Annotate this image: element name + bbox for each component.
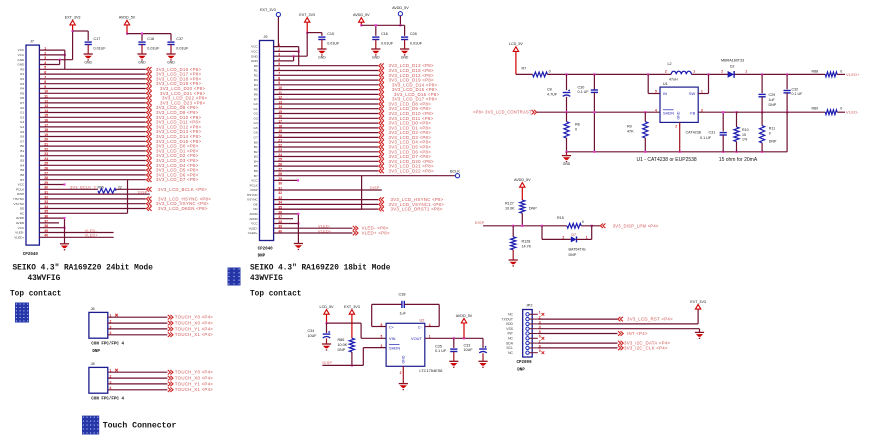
svg-text:C33: C33 — [464, 343, 471, 347]
svg-text:DNP: DNP — [769, 139, 777, 143]
svg-text:CON FPC/FPC 4: CON FPC/FPC 4 — [91, 397, 124, 402]
wire J9 pin39 VLED- — [274, 227, 353, 229]
svg-text:1: 1 — [539, 311, 541, 315]
svg-text:GND: GND — [17, 58, 25, 62]
power flag EXT_3V3 (J7) — [70, 20, 75, 25]
svg-text:VSS: VSS — [506, 327, 514, 331]
svg-text:2: 2 — [400, 371, 402, 375]
svg-text:SHDN: SHDN — [389, 346, 400, 351]
svg-text:R3: R3 — [20, 82, 24, 86]
svg-text:<P8> 3V3_LCD_CONTRAST: <P8> 3V3_LCD_CONTRAST — [473, 110, 532, 115]
svg-text:SEIKO 4.3" RA169Z20 24bit Mo: SEIKO 4.3" RA169Z20 24bit Mode — [13, 264, 154, 272]
svg-text:R4: R4 — [20, 87, 24, 91]
svg-text:R5: R5 — [20, 91, 24, 95]
ground below C28 — [400, 48, 409, 50]
wire DISP to SHDN — [322, 364, 363, 366]
svg-text:DNP: DNP — [517, 369, 525, 373]
svg-text:R1: R1 — [20, 72, 24, 76]
svg-text:B6: B6 — [254, 169, 258, 173]
svg-text:G2: G2 — [20, 115, 24, 119]
ground below C35 — [449, 360, 458, 362]
power flag AVDD_5V (J7) — [124, 20, 129, 25]
svg-text:0.1 UF: 0.1 UF — [792, 92, 804, 96]
wire J7 pin38 to ground — [64, 228, 66, 244]
svg-text:C29: C29 — [769, 93, 776, 97]
wire U1 FB — [698, 111, 736, 113]
net arrow BCLK — [146, 187, 151, 192]
capacitor C15 0.01UF — [318, 36, 325, 38]
svg-text:C18: C18 — [147, 37, 154, 41]
wire DISP row — [483, 225, 567, 227]
capacitor C8 4.7UF — [566, 74, 568, 90]
svg-text:VCC: VCC — [251, 222, 258, 226]
wire EXT_3V3 to C17 — [73, 30, 89, 32]
svg-text:3V3_LCD_DKEN <P8>: 3V3_LCD_DKEN <P8> — [158, 206, 208, 211]
wire J9 pin29 — [274, 179, 298, 181]
net arrows J9 data — [379, 63, 384, 68]
svg-text:G0: G0 — [20, 106, 24, 110]
svg-text:GND: GND — [402, 355, 406, 363]
svg-text:J6: J6 — [91, 307, 95, 311]
svg-text:DISP: DISP — [322, 361, 332, 365]
svg-text:15 ohm for 20mA: 15 ohm for 20mA — [719, 157, 758, 163]
svg-text:SW: SW — [689, 91, 696, 96]
svg-text:G3: G3 — [20, 120, 24, 124]
svg-text:R6: R6 — [254, 93, 258, 97]
svg-text:0.01UF: 0.01UF — [176, 46, 189, 50]
svg-text:VLED-: VLED- — [15, 231, 24, 235]
capacitor C28 0.01UF — [401, 36, 408, 38]
svg-text:43WVFIG: 43WVFIG — [250, 275, 283, 283]
capacitor C37 0.01UF — [167, 41, 174, 43]
wire J7 pin39 VLED- — [39, 232, 113, 234]
net arrow DISP_LPM — [600, 224, 605, 229]
power flag LCD_5V (pump) — [324, 310, 329, 315]
svg-text:C32: C32 — [792, 87, 799, 91]
svg-text:B4: B4 — [20, 163, 24, 167]
wire J9 pins1-4 cluster — [274, 46, 299, 48]
wire C- loop — [438, 304, 440, 326]
svg-text:R8: R8 — [575, 123, 580, 127]
svg-text:CAT4238: CAT4238 — [686, 130, 701, 134]
net arrow contrast — [532, 110, 537, 115]
svg-text:VSYNC: VSYNC — [14, 202, 25, 206]
power flag EXT_3V3 (pump) — [349, 310, 354, 315]
svg-text:AVDD: AVDD — [16, 221, 25, 225]
svg-text:DNP: DNP — [258, 254, 266, 258]
svg-text:C38: C38 — [399, 292, 406, 296]
svg-text:1: 1 — [693, 69, 695, 73]
svg-text:R4: R4 — [254, 83, 258, 87]
svg-text:VLED+: VLED+ — [248, 231, 258, 235]
svg-text:SHDN: SHDN — [663, 111, 674, 116]
ground below C34 — [322, 343, 331, 345]
svg-text:G5: G5 — [20, 130, 24, 134]
svg-text:0.01UF: 0.01UF — [327, 41, 340, 45]
svg-text:GND: GND — [84, 60, 92, 64]
wire contrast row — [537, 111, 660, 113]
svg-text:DISP: DISP — [17, 192, 24, 196]
ground below U2 — [399, 383, 408, 385]
svg-text:C+: C+ — [389, 324, 395, 329]
wire JP2 pin7 SDA — [538, 342, 618, 344]
svg-text:R3: R3 — [254, 78, 258, 82]
power flag AVDD_5V (pump) — [461, 318, 466, 323]
svg-text:DISP: DISP — [138, 190, 148, 194]
svg-text:3V3_DISP_LPM <P4>: 3V3_DISP_LPM <P4> — [613, 223, 659, 228]
svg-text:TOUCH_X1 <P4>: TOUCH_X1 <P4> — [175, 332, 213, 337]
power flag AVDD_5V circle (J9) — [398, 12, 402, 16]
svg-text:AVDD: AVDD — [16, 216, 25, 220]
wire J9 pin38 to ground — [297, 224, 299, 244]
svg-text:R128: R128 — [522, 240, 531, 244]
svg-text:U1: U1 — [663, 82, 668, 86]
svg-text:C28: C28 — [410, 32, 417, 36]
svg-text:G1: G1 — [20, 111, 24, 115]
svg-text:2: 2 — [665, 69, 667, 73]
svg-text:B2: B2 — [20, 154, 24, 158]
svg-text:L2: L2 — [668, 62, 672, 66]
svg-text:0.01UF: 0.01UF — [381, 41, 394, 45]
wire J7 pin31 DISP — [39, 193, 149, 195]
svg-text:43WVFIG: 43WVFIG — [28, 275, 61, 283]
svg-text:B0: B0 — [20, 144, 24, 148]
svg-text:10UF: 10UF — [464, 348, 474, 352]
ground below C18 — [137, 53, 146, 55]
svg-text:PCLK: PCLK — [250, 183, 259, 187]
svg-text:J8: J8 — [91, 362, 95, 366]
svg-text:TOUCH_X1 <P4>: TOUCH_X1 <P4> — [175, 387, 213, 392]
svg-text:R5: R5 — [254, 88, 258, 92]
wire J7 pins36-38 — [39, 217, 64, 219]
svg-text:VCC: VCC — [251, 179, 258, 183]
svg-text:B5: B5 — [20, 168, 24, 172]
wire U1 IN — [647, 74, 649, 93]
svg-text:B6: B6 — [20, 173, 24, 177]
svg-text:C37: C37 — [176, 37, 183, 41]
icon 18bit block — [228, 268, 241, 286]
JP2 no-connect marks — [542, 313, 545, 316]
svg-text:VLED-: VLED- — [318, 225, 331, 229]
svg-text:AVDD_5V: AVDD_5V — [392, 6, 409, 10]
svg-text:HSYNC: HSYNC — [247, 193, 259, 197]
wire J9 pin28 BCLK — [274, 175, 456, 177]
capacitor C30 0.1UF — [593, 74, 595, 90]
svg-text:VLED+: VLED+ — [14, 235, 24, 239]
svg-text:NC: NC — [253, 207, 258, 211]
svg-text:EXT_3V3: EXT_3V3 — [65, 16, 81, 20]
svg-text:0.1 UF: 0.1 UF — [435, 349, 447, 353]
svg-text:3: 3 — [381, 344, 383, 348]
capacitor C18 0.01UF — [138, 41, 145, 43]
capacitor C29 1uF DNP — [761, 74, 763, 93]
svg-text:DNP: DNP — [529, 206, 537, 210]
wire JP2 pin2 RST — [538, 318, 618, 320]
svg-text:G2: G2 — [254, 112, 258, 116]
svg-text:VSYNC: VSYNC — [247, 198, 258, 202]
svg-text:R15: R15 — [557, 216, 564, 220]
svg-text:CP2099: CP2099 — [517, 361, 533, 365]
svg-text:R86: R86 — [338, 338, 345, 342]
svg-text:VCC: VCC — [18, 48, 25, 52]
svg-text:1uF: 1uF — [769, 98, 776, 102]
svg-text:VCC: VCC — [18, 226, 25, 230]
ground below C37 — [166, 53, 175, 55]
wire C+ loop — [371, 304, 373, 326]
svg-text:EXT_3V3: EXT_3V3 — [344, 305, 360, 309]
power flag EXT_3V3 (J9) — [305, 18, 310, 23]
svg-text:GND: GND — [318, 55, 326, 59]
svg-text:3V3_LCD_BCLK <P8>: 3V3_LCD_BCLK <P8> — [158, 187, 207, 192]
svg-text:DE: DE — [253, 202, 257, 206]
power flag EXT_3V3 (JP2) — [695, 305, 700, 310]
svg-text:G5: G5 — [254, 126, 258, 130]
wire J9 sync pins — [274, 199, 378, 201]
svg-text:1: 1 — [586, 236, 588, 240]
wire U1 SW — [698, 93, 708, 95]
svg-text:0: 0 — [840, 69, 842, 73]
svg-text:IN: IN — [663, 91, 667, 96]
svg-text:5: 5 — [381, 334, 383, 338]
svg-text:VLED-: VLED- — [846, 110, 859, 115]
svg-text:VIN: VIN — [389, 336, 396, 341]
svg-text:JP2: JP2 — [526, 304, 533, 308]
wire J7 vertical tie — [127, 180, 129, 214]
svg-text:U1 - CAT4238 or EUP2538: U1 - CAT4238 or EUP2538 — [637, 157, 697, 163]
wire JP2 pin8 SCL — [538, 347, 618, 349]
svg-text:TOUCH_Y0 <P4>: TOUCH_Y0 <P4> — [175, 315, 213, 320]
svg-text:TOUCH_X0 <P4>: TOUCH_X0 <P4> — [175, 321, 213, 326]
svg-text:R0: R0 — [254, 64, 258, 68]
svg-text:AVDD_5V: AVDD_5V — [514, 178, 531, 182]
svg-text:B3: B3 — [20, 159, 24, 163]
svg-text:D7: D7 — [572, 233, 576, 237]
svg-text:G6: G6 — [254, 131, 258, 135]
resistor R8 0 — [566, 112, 568, 122]
svg-text:LTC1754ES6: LTC1754ES6 — [419, 368, 442, 373]
ground below J9 — [294, 243, 303, 245]
wire J7 pin40 VLED+ — [39, 236, 113, 238]
svg-text:G7: G7 — [254, 136, 258, 140]
wire AVDD rail J7 — [127, 33, 171, 35]
svg-text:3V3_LCD_DRST1 <P8>: 3V3_LCD_DRST1 <P8> — [391, 207, 443, 212]
svg-text:B4: B4 — [254, 159, 258, 163]
svg-text:R88: R88 — [812, 69, 819, 73]
svg-text:3V3_LCD_RST <P4>: 3V3_LCD_RST <P4> — [627, 317, 673, 322]
svg-text:FB: FB — [690, 111, 695, 116]
svg-text:NC: NC — [508, 351, 513, 355]
svg-text:TOUCH_Y1 <P4>: TOUCH_Y1 <P4> — [175, 381, 213, 386]
svg-text:NC: NC — [508, 337, 513, 341]
svg-text:NC: NC — [20, 211, 25, 215]
ground below C17 — [84, 53, 93, 55]
svg-text:SEIKO 4.3" RA169Z20 18bit Mo: SEIKO 4.3" RA169Z20 18bit Mode — [250, 264, 391, 272]
svg-text:INT <P4>: INT <P4> — [627, 331, 648, 336]
wire JP2 pin4 to ground — [538, 328, 700, 330]
op-amp U1 CAT4238 — [660, 87, 698, 122]
svg-text:LCD_5V: LCD_5V — [509, 42, 523, 46]
svg-text:B3: B3 — [254, 155, 258, 159]
svg-text:HSYNC: HSYNC — [13, 197, 25, 201]
svg-text:J9: J9 — [264, 35, 268, 39]
capacitor C31 0.1UF — [722, 112, 724, 131]
svg-text:BCLK: BCLK — [450, 170, 460, 174]
svg-text:R7: R7 — [20, 101, 24, 105]
svg-text:2: 2 — [675, 125, 677, 129]
svg-text:CP2040: CP2040 — [258, 247, 274, 251]
power flag AVDD_5V (J9) — [359, 18, 364, 23]
wire AVDD rail J9 — [361, 24, 404, 26]
svg-text:10UF: 10UF — [308, 334, 318, 338]
svg-text:B7: B7 — [20, 178, 24, 182]
svg-text:AVDD: AVDD — [249, 212, 258, 216]
svg-text:DNP: DNP — [338, 348, 346, 352]
ground below C33 — [478, 360, 487, 362]
wire J7 pin29 — [39, 184, 64, 186]
svg-text:AVDD_5V: AVDD_5V — [119, 16, 136, 20]
svg-text:Touch Connector: Touch Connector — [103, 421, 177, 431]
svg-text:GND: GND — [563, 162, 571, 166]
svg-text:GND: GND — [401, 55, 409, 59]
ground below R128 — [509, 259, 518, 261]
svg-text:DNP: DNP — [92, 350, 100, 354]
svg-text:4.7UF: 4.7UF — [547, 92, 558, 96]
svg-text:SDA: SDA — [506, 341, 514, 345]
touch connector icon — [82, 416, 99, 435]
svg-text:VLED+: VLED+ — [846, 72, 860, 77]
svg-text:J7: J7 — [30, 40, 34, 44]
wire bus J9 data pins 5-27 — [274, 65, 378, 67]
svg-text:R11: R11 — [769, 127, 775, 131]
svg-text:G4: G4 — [20, 125, 24, 129]
connector J7 CP2040 — [26, 45, 39, 245]
svg-text:32: 32 — [278, 191, 282, 195]
svg-text:0: 0 — [769, 131, 771, 135]
wire top rail — [547, 73, 671, 75]
svg-text:G4: G4 — [254, 121, 258, 125]
svg-text:EXT_3V3: EXT_3V3 — [299, 13, 315, 17]
resistor R96 22 — [39, 188, 98, 190]
svg-text:C34: C34 — [308, 329, 315, 333]
wire bus J7 data pins 5-28 — [39, 68, 145, 70]
svg-text:30: 30 — [278, 182, 282, 186]
svg-text:G7: G7 — [20, 139, 24, 143]
svg-text:DISP: DISP — [250, 188, 257, 192]
svg-text:0.1 UF: 0.1 UF — [578, 90, 590, 94]
ground below C16 — [371, 48, 380, 50]
svg-text:TOUCH_Y1 <P4>: TOUCH_Y1 <P4> — [175, 326, 213, 331]
wire J7 pins1-4 power cluster — [39, 49, 64, 51]
wire J9 pin40 VLED+ — [274, 232, 353, 234]
wire J9 pins36-38 — [274, 213, 299, 215]
wire J9 vertical tie — [361, 176, 363, 209]
svg-text:PCLK: PCLK — [16, 187, 25, 191]
svg-text:R2: R2 — [254, 73, 258, 77]
svg-text:Top contact: Top contact — [10, 291, 61, 299]
wire VOUT rail — [425, 337, 483, 339]
svg-text:DE: DE — [20, 207, 24, 211]
svg-text:GND: GND — [17, 63, 25, 67]
svg-text:VLED+ <P8>: VLED+ <P8> — [362, 230, 390, 235]
resistor R10 15 1% — [736, 112, 738, 127]
svg-text:GND: GND — [251, 54, 259, 58]
svg-text:CP2040: CP2040 — [23, 253, 39, 257]
svg-text:R1: R1 — [254, 69, 258, 73]
wire LCD_5V to VIN — [327, 322, 362, 324]
svg-text:0.01UF: 0.01UF — [94, 46, 107, 50]
svg-text:Top contact: Top contact — [250, 291, 301, 299]
wire JP2 pin3 to EXT_3V3 — [538, 323, 698, 325]
svg-text:MBRA160T33: MBRA160T33 — [721, 59, 744, 63]
svg-text:3V3_I2C_CLK <P4>: 3V3_I2C_CLK <P4> — [624, 345, 668, 350]
svg-text:2: 2 — [721, 69, 723, 73]
resistor R11 0 DNP — [761, 112, 763, 125]
svg-text:GND: GND — [251, 59, 259, 63]
power flag AVDD_5V (disp) — [520, 183, 525, 188]
ground below J7 — [60, 243, 69, 245]
svg-text:0.01UF: 0.01UF — [147, 46, 160, 50]
svg-text:GND: GND — [677, 111, 681, 119]
svg-text:0: 0 — [549, 69, 551, 73]
svg-text:VCC: VCC — [18, 183, 25, 187]
svg-text:R7: R7 — [522, 67, 527, 71]
svg-text:TXOUT: TXOUT — [502, 317, 514, 321]
svg-text:VLED+: VLED+ — [85, 234, 99, 238]
power flag EXT_3V3 circle (J9) — [276, 12, 280, 16]
svg-text:6: 6 — [539, 335, 541, 339]
wire J9 pin31 DISP — [274, 189, 382, 191]
connector J9 CP2040 DNP — [260, 41, 274, 241]
svg-text:BAT54TIG: BAT54TIG — [569, 247, 586, 251]
op-amp U2 LTC1754 — [386, 323, 425, 366]
svg-text:VLED-: VLED- — [249, 226, 258, 230]
svg-text:VCC: VCC — [18, 53, 25, 57]
svg-text:G3: G3 — [254, 116, 258, 120]
svg-text:R0: R0 — [20, 67, 24, 71]
svg-text:9: 9 — [539, 349, 541, 353]
svg-text:DISP: DISP — [475, 221, 485, 225]
svg-text:47uH: 47uH — [669, 78, 678, 82]
svg-text:VCC: VCC — [251, 50, 258, 54]
svg-text:2: 2 — [562, 236, 564, 240]
capacitor C16 0.01UF — [372, 36, 379, 38]
svg-text:C-: C- — [418, 324, 423, 329]
power flag LCD_5V (backlight) — [513, 47, 518, 52]
ground below C15 — [317, 48, 326, 50]
svg-text:R7: R7 — [254, 97, 258, 101]
capacitor C17 0.01UF — [85, 41, 92, 43]
svg-text:TOUCH_X0 <P4>: TOUCH_X0 <P4> — [175, 376, 213, 381]
wire EXT_3V3 to C15 — [307, 32, 322, 34]
wire U1 GND pin — [679, 122, 681, 151]
svg-text:VOUT: VOUT — [411, 336, 422, 341]
svg-text:C15: C15 — [327, 32, 334, 36]
svg-text:R2: R2 — [20, 77, 24, 81]
svg-text:10.0K: 10.0K — [505, 206, 515, 210]
wire bottom rail — [567, 151, 788, 153]
svg-text:47K: 47K — [627, 130, 634, 134]
wire JP2 pin5 INT — [538, 333, 618, 335]
svg-text:B1: B1 — [20, 149, 24, 153]
svg-text:15: 15 — [742, 133, 746, 137]
svg-text:VLED-: VLED- — [85, 229, 98, 233]
svg-text:14.7K: 14.7K — [522, 245, 532, 249]
wire J7 sync pins 32-34 — [39, 198, 145, 200]
svg-text:3V3_LCD_D7 <P8>: 3V3_LCD_D7 <P8> — [156, 177, 199, 182]
svg-text:D2: D2 — [730, 65, 734, 69]
ground below bottom rail — [562, 155, 571, 157]
svg-text:0: 0 — [575, 128, 577, 132]
